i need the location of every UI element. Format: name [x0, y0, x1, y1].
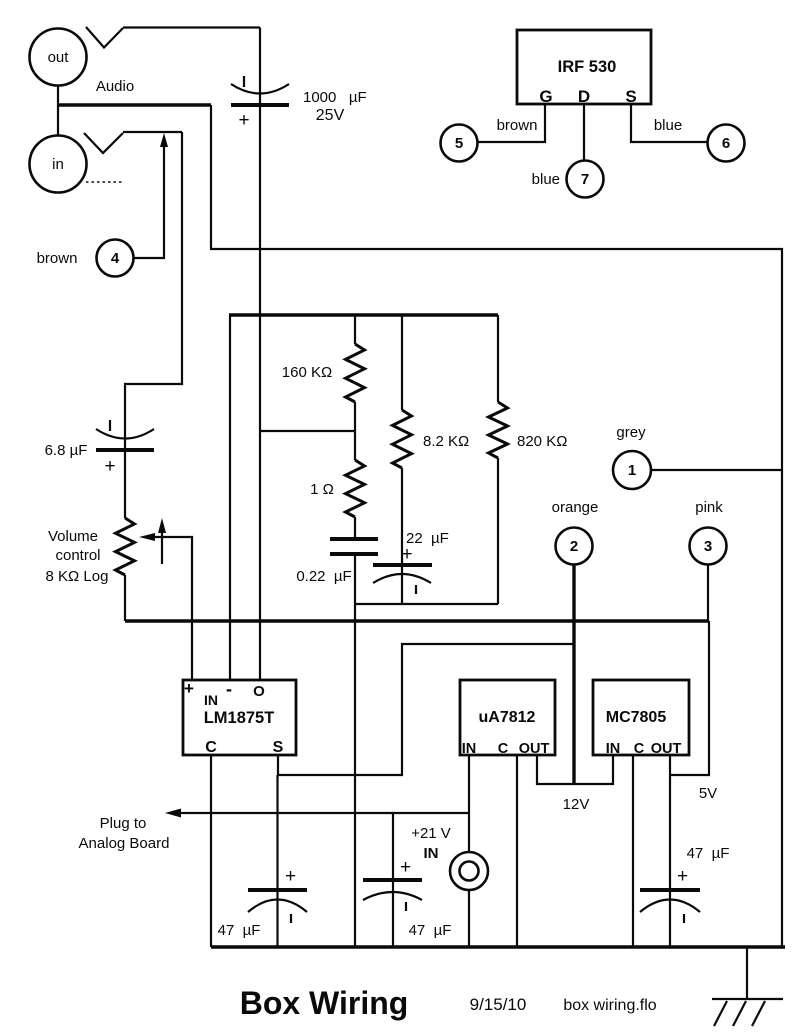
svg-text:+: + [401, 544, 412, 565]
svg-text:7: 7 [581, 171, 589, 188]
svg-text:47 µF: 47 µF [218, 922, 261, 939]
wire junction jog [260, 430, 355, 432]
wire out to in jack [57, 86, 59, 136]
wire G pin [478, 104, 546, 142]
wire R2 to C2 [354, 517, 356, 539]
label Volume control 8 KOhm Log [46, 528, 109, 585]
svg-text:Box Wiring: Box Wiring [240, 985, 409, 1021]
svg-text:blue: blue [532, 171, 560, 188]
resistor R2 1 Ohm [346, 460, 365, 517]
svg-text:+: + [285, 866, 296, 887]
svg-text:6.8 µF: 6.8 µF [45, 442, 88, 459]
svg-text:+: + [184, 679, 194, 698]
svg-text:out: out [48, 49, 70, 66]
potentiometer VR1 volume [116, 518, 135, 621]
capacitor C6 47uF input [363, 813, 422, 947]
svg-text:4: 4 [111, 250, 120, 267]
ground [712, 947, 783, 1026]
wire C1 down to O pin [259, 105, 261, 680]
svg-text:IN: IN [424, 845, 439, 862]
svg-text:-: - [226, 679, 232, 699]
svg-text:pink: pink [695, 499, 723, 516]
capacitor C1 1000uF [231, 28, 289, 132]
svg-text:LM1875T: LM1875T [204, 709, 275, 727]
wiper arrow wire [139, 533, 192, 680]
out jack contact [86, 27, 123, 48]
svg-text:1000 µF: 1000 µF [303, 89, 367, 106]
connector circle 5 [441, 125, 478, 162]
svg-text:IRF 530: IRF 530 [558, 58, 617, 76]
capacitor C4 6.8uF [96, 420, 154, 518]
wire U2 C pin [516, 755, 518, 947]
svg-text:MC7805: MC7805 [606, 709, 667, 726]
wire to top rail [211, 105, 782, 947]
jack J1 out circle [30, 29, 87, 86]
svg-text:Analog Board: Analog Board [79, 835, 170, 852]
adjustment up arrow [158, 518, 166, 564]
connector circle 3 pink [690, 499, 727, 565]
svg-text:+: + [238, 110, 249, 131]
svg-text:820 KΩ: 820 KΩ [517, 433, 567, 450]
wire S pin [631, 104, 707, 142]
svg-text:brown: brown [497, 117, 538, 134]
wire 5V rail [125, 619, 709, 622]
label +21 V IN [411, 825, 451, 862]
wire left branch to minus pin [229, 315, 231, 680]
wire audio common thick [57, 103, 211, 106]
wire pink to 5V node [707, 565, 709, 622]
svg-text:6: 6 [722, 135, 730, 152]
svg-text:+: + [677, 866, 688, 887]
wire U1 C pin to ground rail [210, 755, 212, 947]
svg-text:brown: brown [37, 250, 78, 267]
capacitor C2 0.22uF [330, 539, 378, 554]
svg-text:160 KΩ: 160 KΩ [282, 364, 332, 381]
svg-text:S: S [625, 87, 636, 106]
svg-text:5: 5 [455, 135, 463, 152]
svg-text:orange: orange [552, 499, 599, 516]
svg-text:S: S [273, 739, 284, 756]
jack J2 in circle [30, 136, 87, 193]
svg-text:grey: grey [616, 424, 646, 441]
wire ground rail [211, 945, 785, 948]
dotted lead [86, 181, 122, 183]
wire 5V node down [670, 621, 709, 775]
wire circle4 with up arrow [134, 133, 169, 258]
op-amp U1 LM1875T box [183, 679, 296, 756]
connector circle 7 [567, 161, 604, 198]
svg-text:25V: 25V [316, 107, 345, 124]
connector circle 2 orange [552, 499, 599, 565]
svg-text:8 KΩ Log: 8 KΩ Log [46, 568, 109, 585]
connector jack +21V [450, 852, 488, 890]
capacitor C5 47uF [248, 775, 307, 947]
svg-text:8.2 KΩ: 8.2 KΩ [423, 433, 469, 450]
svg-text:G: G [539, 87, 552, 106]
label 1000 uF 25V [303, 89, 367, 124]
svg-text:1 Ω: 1 Ω [310, 481, 334, 498]
svg-text:IN: IN [462, 741, 477, 757]
svg-text:12V: 12V [563, 796, 590, 813]
svg-text:Plug to: Plug to [100, 815, 147, 832]
svg-text:9/15/10: 9/15/10 [470, 995, 527, 1014]
svg-text:Volume: Volume [48, 528, 98, 545]
svg-text:OUT: OUT [519, 741, 550, 757]
wire out jack tip to C1 [123, 26, 260, 28]
connector circle 1 grey [613, 424, 651, 489]
wire network bottom [355, 603, 498, 605]
svg-text:C: C [205, 739, 217, 756]
resistor R3 8.2K [393, 315, 412, 564]
svg-text:uA7812: uA7812 [479, 709, 536, 726]
svg-text:+: + [104, 456, 115, 477]
svg-text:in: in [52, 156, 64, 173]
pin labels G D S [539, 87, 636, 106]
svg-text:C: C [498, 741, 509, 757]
svg-text:2: 2 [570, 538, 578, 555]
transistor U4 IRF 530 box [517, 30, 651, 104]
wire U1 S pin to 12V [278, 644, 575, 775]
wire U2 IN pin down [468, 755, 470, 947]
svg-text:IN: IN [204, 692, 218, 708]
wire R1 to R2 [354, 402, 356, 460]
wire C2 down to bottom rail [354, 554, 356, 947]
capacitor C3 22uF [373, 530, 449, 604]
connector circle 6 [708, 125, 745, 162]
svg-text:IN: IN [606, 741, 621, 757]
svg-text:+21 V: +21 V [411, 825, 451, 842]
svg-text:C: C [634, 741, 645, 757]
connector circle 4 [97, 240, 134, 277]
svg-text:1: 1 [628, 462, 636, 479]
svg-text:Audio: Audio [96, 78, 134, 95]
label Plug to Analog Board [79, 815, 170, 852]
regulator U2 uA7812 box [460, 680, 555, 757]
wire in jack down [125, 132, 182, 450]
wire in jack tip [123, 131, 182, 133]
svg-text:3: 3 [704, 538, 712, 555]
svg-text:OUT: OUT [651, 741, 682, 757]
wire orange 12V feed [572, 565, 575, 785]
wire top rail of resistor network [229, 313, 498, 316]
svg-text:47 µF: 47 µF [409, 922, 452, 939]
wire U3 OUT pin down [669, 755, 671, 947]
resistor R1 160K [346, 315, 365, 402]
svg-text:D: D [578, 87, 590, 106]
capacitor C7 47uF output [640, 866, 700, 923]
svg-text:O: O [253, 683, 265, 700]
svg-text:5V: 5V [699, 785, 717, 802]
resistor R4 820K [489, 315, 508, 604]
wire U2 OUT to U3 IN 12V link [537, 755, 613, 784]
wire plug arrow [165, 809, 469, 818]
in jack contact [84, 133, 123, 153]
svg-text:control: control [55, 547, 100, 564]
wire U3 C pin [632, 755, 634, 947]
wire D pin [583, 104, 585, 160]
svg-text:47 µF: 47 µF [687, 845, 730, 862]
svg-text:blue: blue [654, 117, 682, 134]
svg-text:+: + [400, 857, 411, 878]
svg-text:0.22 µF: 0.22 µF [296, 568, 351, 585]
svg-text:box wiring.flo: box wiring.flo [563, 997, 656, 1014]
regulator U3 MC7805 box [593, 680, 689, 757]
wire circle1 to right rail [651, 469, 782, 471]
